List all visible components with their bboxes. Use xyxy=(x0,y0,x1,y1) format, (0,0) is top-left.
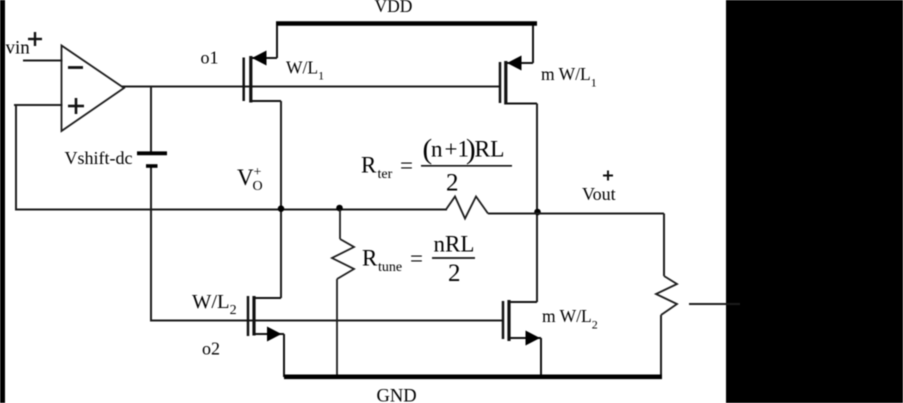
wire noninverting input xyxy=(15,104,62,106)
wire main output rail left xyxy=(16,209,446,211)
wire Vout to load xyxy=(663,214,665,277)
svg-text:tune: tune xyxy=(378,260,402,275)
node dot C (Vout) xyxy=(534,209,541,216)
transistor M2 (PMOS m W/L1) xyxy=(500,26,537,105)
transistor o2 (NMOS W/L2) xyxy=(248,296,284,377)
svg-text:GND: GND xyxy=(377,387,417,403)
node dot A (Vo) xyxy=(278,205,285,212)
wire op-amp output / top gate line xyxy=(123,86,500,88)
wire o1 drain to node xyxy=(280,101,282,298)
resistor Rter xyxy=(446,197,488,219)
svg-text:=: = xyxy=(400,153,413,178)
op-amp plus sign xyxy=(68,98,84,114)
wire vin input xyxy=(24,60,62,62)
resistor RL load xyxy=(656,276,677,315)
wire bottom gate line xyxy=(151,320,503,322)
svg-text:2: 2 xyxy=(448,260,461,287)
svg-text:=: = xyxy=(410,246,423,271)
op-amp minus sign xyxy=(68,66,83,69)
svg-text:n: n xyxy=(431,137,443,162)
wire Vout rail xyxy=(488,213,664,215)
node dot B (Rtune tap) xyxy=(336,205,343,212)
wire feedback vertical xyxy=(15,105,17,210)
svg-text:V: V xyxy=(237,165,254,190)
svg-text:2: 2 xyxy=(446,170,459,197)
svg-text:R: R xyxy=(362,246,378,271)
transistor o1 (PMOS W/L1) xyxy=(244,26,281,103)
battery Vshift-dc xyxy=(137,151,167,155)
svg-text:O: O xyxy=(253,179,263,194)
svg-text:Vout: Vout xyxy=(582,184,616,204)
o2 source arrow xyxy=(267,327,282,342)
left black border bar xyxy=(0,0,5,403)
wire battery top xyxy=(150,87,152,152)
label vin plus xyxy=(28,32,42,46)
right black panel xyxy=(726,0,903,403)
resistor Rtune xyxy=(332,210,354,378)
svg-text:+: + xyxy=(445,137,458,162)
svg-text:o2: o2 xyxy=(202,339,220,359)
svg-text:RL: RL xyxy=(475,137,505,163)
wire tap to right xyxy=(689,303,740,305)
VDD rail xyxy=(276,21,537,26)
wire battery bottom vertical xyxy=(150,168,152,321)
svg-text:Vshift-dc: Vshift-dc xyxy=(65,148,133,168)
m W/L2 source arrow xyxy=(526,331,541,346)
transistor M4 (NMOS m W/L2) xyxy=(503,300,541,377)
wire m W/L1 drain to Vout node xyxy=(536,104,538,303)
svg-text:R: R xyxy=(361,153,377,178)
op-amp U1 xyxy=(62,46,125,132)
o1 source arrow xyxy=(252,51,267,66)
wire load to GND xyxy=(660,315,662,377)
svg-text:vin: vin xyxy=(6,37,31,58)
label Vout plus xyxy=(603,171,613,181)
svg-text:o1: o1 xyxy=(201,48,219,68)
svg-text:+: + xyxy=(254,165,262,180)
svg-text:nRL: nRL xyxy=(434,232,475,257)
svg-text:ter: ter xyxy=(378,167,393,182)
svg-text:VDD: VDD xyxy=(375,0,413,16)
m W/L1 source arrow xyxy=(507,56,522,71)
GND rail xyxy=(284,374,662,379)
